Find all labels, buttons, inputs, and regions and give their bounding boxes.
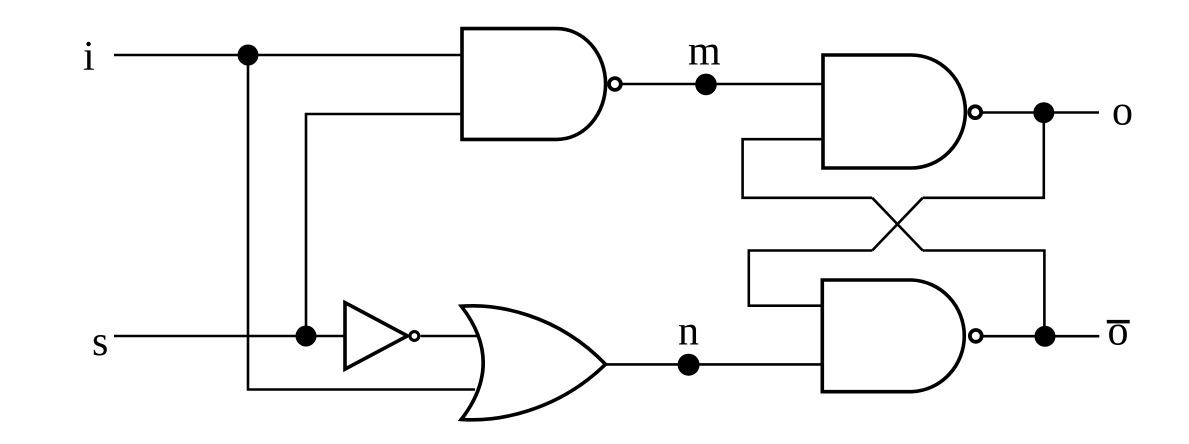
- wire U4 output to node o: [983, 111, 1099, 114]
- junction dot on i wire: [238, 45, 259, 66]
- feedback wire from node o down to crossover: [923, 113, 1044, 198]
- wire from s junction up and right to NAND U1 lower input: [306, 114, 462, 336]
- output label o-bar overline: [1107, 320, 1130, 324]
- NAND gate U5 (bottom right) body: [822, 280, 964, 392]
- svg-text:o: o: [1112, 89, 1133, 135]
- NAND gate U4 (top right) body: [823, 55, 965, 168]
- NAND U4 output bubble: [969, 106, 981, 118]
- feedback wire from crossover down to node o-bar: [923, 251, 1045, 337]
- junction dot on s wire: [296, 326, 317, 347]
- inverter U2 triangle: [345, 303, 408, 370]
- feedback wire to NAND U5 upper input: [749, 251, 872, 306]
- node dot o-bar: [1035, 326, 1056, 347]
- svg-text:i: i: [83, 34, 95, 80]
- wire U5 output to node o-bar: [983, 335, 1099, 338]
- crossover diagonal from U4 side down to o-bar side: [872, 198, 923, 251]
- wire U1 output to node m and NAND U4 upper input: [622, 83, 823, 86]
- svg-text:n: n: [678, 308, 699, 354]
- wire input s to inverter U2 input: [114, 335, 345, 338]
- feedback wire from NAND U4 lower input to crossover: [743, 139, 873, 198]
- wire U3 output to node n and NAND U5 lower input: [606, 363, 823, 366]
- NAND U5 output bubble: [970, 330, 982, 342]
- svg-text:m: m: [688, 29, 721, 75]
- OR gate U3 body: [461, 306, 605, 420]
- NAND gate U1 body: [462, 29, 606, 140]
- svg-text:s: s: [92, 319, 108, 365]
- svg-text:o: o: [1108, 308, 1129, 354]
- NAND U1 output bubble: [609, 78, 621, 90]
- wire input i to NAND U1 upper input: [114, 54, 462, 57]
- inverter U2 output bubble: [410, 332, 419, 341]
- wire from i junction down and right to OR U3 lower input: [248, 55, 475, 390]
- wire U2 output to OR U3 upper input: [421, 335, 477, 338]
- crossover diagonal from o side down to U5 side: [872, 198, 923, 251]
- node dot n: [678, 354, 700, 376]
- node dot o: [1033, 102, 1054, 123]
- node dot m: [695, 74, 717, 96]
